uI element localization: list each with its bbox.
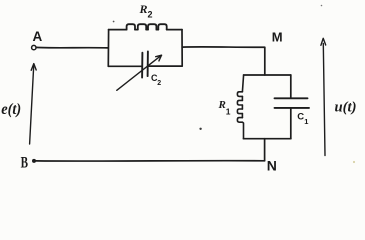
- capacitor C2 (variable): [108, 52, 182, 88]
- node A: [32, 29, 43, 50]
- wire B to N: [36, 160, 265, 162]
- node M: [272, 30, 283, 45]
- wire from R1/C1 loop down to node N: [264, 139, 266, 161]
- svg-text:R: R: [218, 99, 226, 111]
- arrow of variable capacitor C2: [117, 55, 162, 90]
- svg-text:1: 1: [226, 107, 231, 117]
- svg-text:2: 2: [157, 80, 161, 87]
- wire right edge of R2/C2 loop: [181, 30, 183, 67]
- resistor R2: [109, 2, 182, 30]
- wire left edge of R2/C2 loop: [107, 30, 109, 67]
- resistor R1: [218, 75, 244, 139]
- capacitor C1: [275, 75, 310, 139]
- wire bottom edge of R1/C1 loop: [244, 138, 291, 140]
- arrow e(t): [1, 64, 36, 144]
- wire from R2/C2 loop to node M corner: [182, 47, 265, 75]
- wire top edge of R1/C1 loop: [244, 74, 291, 76]
- svg-text:N: N: [267, 158, 277, 174]
- svg-text:M: M: [272, 30, 283, 45]
- svg-text:1: 1: [304, 117, 308, 126]
- svg-text:u(t): u(t): [335, 100, 357, 116]
- node B: [21, 154, 36, 171]
- svg-text:B: B: [21, 154, 29, 171]
- svg-text:2: 2: [148, 10, 153, 20]
- svg-text:A: A: [33, 29, 43, 44]
- svg-text:R: R: [139, 2, 148, 16]
- arrow u(t): [321, 38, 357, 155]
- svg-text:C: C: [297, 112, 304, 123]
- svg-text:e(t): e(t): [1, 101, 21, 118]
- wire A to parallel block: [36, 46, 108, 49]
- node N: [267, 158, 277, 174]
